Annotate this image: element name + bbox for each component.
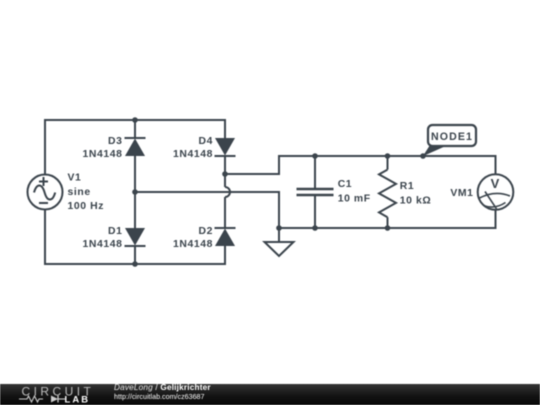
label D4 [173,136,213,160]
wire hop over mid wire [225,187,230,197]
diode D4 [215,138,236,156]
junction C1 top [312,153,318,159]
diode D1 [125,228,146,246]
wire bottom right rail [279,210,496,228]
junction R1 top [385,153,391,159]
label D3 [83,136,123,160]
svg-text:1N4148: 1N4148 [173,239,213,250]
svg-text:R1: R1 [400,181,414,192]
diode D3 [125,138,146,156]
wire D3 anode to D1 anode [134,156,136,228]
wire top rail V1+ to D4 column [45,120,225,175]
wire mid output- horizontal [135,192,279,228]
wire D3 cathode stub [134,120,136,138]
svg-text:V: V [491,176,500,191]
svg-text:10 mF: 10 mF [338,194,371,205]
wire ground stub [278,228,280,242]
credit text [114,383,211,402]
ground [265,242,294,256]
capacitor C1 [297,189,334,195]
wire output+ tap [225,156,496,174]
label V1 [68,173,105,213]
wire R1 top stub [387,156,389,170]
junction C1 bottom [312,225,318,231]
node NODE1 flag [423,125,476,156]
junction R1 bottom [385,225,391,231]
wire bottom rail V1- [45,209,225,264]
svg-text:NODE1: NODE1 [431,131,473,143]
CircuitLab logo [0,384,100,405]
junction ground [276,225,282,231]
label D1 [83,226,123,250]
junction output+ tap [222,171,228,177]
svg-text:LAB: LAB [65,394,91,405]
svg-text:VM1: VM1 [450,188,473,199]
junction D3 top rail [132,117,138,123]
junction D1 bottom rail [132,261,138,267]
voltmeter VM1 [478,174,514,210]
wire hop to D2 cathode [224,197,226,228]
label C1 [338,179,371,205]
svg-text:sine: sine [68,187,91,198]
svg-text:1N4148: 1N4148 [83,149,123,160]
resistor R1 [379,170,396,218]
junction NODE1 attach [420,153,426,159]
label D2 [173,226,213,250]
diode D2 [215,228,236,246]
voltage source V1 [28,175,63,210]
footer bar [0,384,540,405]
junction mid wire left [132,189,138,195]
wire D1 cathode to bottom rail [134,246,136,264]
svg-text:V1: V1 [68,173,82,184]
svg-text:D4: D4 [199,136,213,147]
label R1 [400,181,432,206]
wire C1 top stub [314,156,316,189]
svg-text:D2: D2 [199,226,213,237]
svg-text:1N4148: 1N4148 [83,239,123,250]
wire R1 bottom stub [387,217,389,228]
svg-text:10 kΩ: 10 kΩ [400,195,432,206]
wire C1 bottom stub [314,195,316,228]
svg-text:C1: C1 [338,179,352,190]
wire D4 cathode down to tap [224,156,226,187]
svg-text:D1: D1 [108,226,122,237]
svg-text:D3: D3 [108,136,122,147]
svg-text:100 Hz: 100 Hz [68,201,105,212]
svg-text:1N4148: 1N4148 [173,149,213,160]
